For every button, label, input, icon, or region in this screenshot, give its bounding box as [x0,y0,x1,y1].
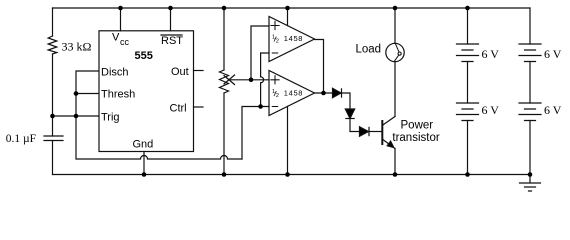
wire top rail [53,7,531,9]
node Vcc rail [118,6,123,11]
svg-text:1458: 1458 [284,34,303,43]
svg-text:Power: Power [401,120,434,132]
node opamp power rail [285,6,290,11]
wire opamp1 output [315,40,324,94]
node cap trig [50,114,55,119]
potentiometer resistor body [220,70,229,93]
node battery1 rail [465,6,470,11]
diode D2 [345,109,354,119]
op-amp U2b plus glyph [271,76,279,84]
wire diode1 to diode2 [342,93,351,109]
ground symbol [520,175,541,192]
node thresh vertical [74,91,79,96]
svg-text:transistor: transistor [392,132,439,144]
wire capacitor to bottom rail [52,141,54,175]
svg-text:RST: RST [161,35,183,47]
transistor Q1 base bar [381,121,383,144]
node gnd bottom [142,172,147,177]
wire diode3 to transistor base [369,131,382,133]
svg-text:Out: Out [171,66,189,78]
svg-text:Ctrl: Ctrl [170,103,187,115]
RST overline [161,34,182,36]
transistor Q1 emitter [383,140,395,149]
wire hop over wiper line [261,77,264,83]
wire resistor to capacitor [52,54,54,136]
battery B4 lower wire [529,121,531,175]
wire output node to diode 1 [315,92,333,94]
potentiometer upper wire [223,8,225,70]
svg-text:555: 555 [135,50,153,62]
battery B2 plates [457,103,479,121]
wire Vcc pin stub [120,8,122,31]
svg-text:Load: Load [356,44,382,56]
node battery1 bottom [465,172,470,177]
battery B4 plates [519,103,541,121]
wire Gnd pin [143,152,145,175]
wire inverting junction down [260,83,262,107]
resistor R 33k [48,36,57,54]
wire Out pin stub [194,70,204,72]
svg-text:6 V: 6 V [482,47,500,61]
wire Trig pin [53,115,99,117]
transistor Q1 emitter wire [394,149,396,175]
wire wiper to opamp1 noninverting [251,26,269,80]
op-amp U2b power wire [287,106,289,174]
battery B1 plates [457,44,479,62]
battery B1 to B2 wire [467,62,469,104]
transistor Q1 collector [383,117,395,126]
node opamp neg power bottom [285,172,290,177]
node trig vertical [74,114,79,119]
svg-text:1458: 1458 [284,88,303,97]
wire left branch upper [52,8,54,36]
wire Disch pin and feedback with hops [76,71,242,159]
lamp load filament [394,44,399,62]
op-amp U2a minus glyph [272,52,277,54]
node output junction [321,91,326,96]
wire wiper to opamp2 noninverting [251,79,269,81]
svg-text:Gnd: Gnd [133,139,154,151]
node pot bottom [222,172,227,177]
label 1/2 1458 opamp1 [272,34,303,45]
node emitter bottom [393,172,398,177]
lamp load upper wire [394,8,396,43]
wire RST pin stub [170,8,172,31]
potentiometer wiper arrow [229,79,251,81]
battery B3 upper wire [529,8,531,44]
wire opamp2 inverting [242,107,269,160]
svg-text:6 V: 6 V [482,103,500,117]
wire Ctrl pin stub [194,106,204,108]
node pot top rail [222,6,227,11]
svg-text:2: 2 [276,39,279,45]
svg-text:2: 2 [276,93,279,99]
op-amp U2b triangle [269,71,315,116]
svg-text:V: V [112,32,120,44]
svg-text:Thresh: Thresh [101,89,135,101]
svg-text:33 kΩ: 33 kΩ [62,40,92,54]
op-amp U2a power wire [287,8,289,26]
svg-text:Disch: Disch [101,67,129,79]
svg-text:Trig: Trig [101,112,120,124]
node RST rail [168,6,173,11]
label 1/2 1458 opamp2 [272,88,303,99]
diode D1 [333,88,394,147]
battery B1 upper wire [467,8,469,44]
op-amp U2a triangle [269,17,315,62]
svg-text:cc: cc [120,37,130,47]
IC U1 555 box [99,31,194,152]
svg-text:6 V: 6 V [544,47,562,61]
lamp to collector wire [394,62,396,117]
capacitor C 0.1uF [44,135,63,137]
battery B2 lower wire [467,121,469,175]
svg-text:0.1 µF: 0.1 µF [6,133,36,145]
transistor Q1 emitter arrowhead [387,141,394,147]
svg-text:6 V: 6 V [544,103,562,117]
node lamp rail [393,6,398,11]
wire Thresh pin [76,93,99,95]
wire bottom rail [53,174,531,176]
wire opamp1 inverting feedback [261,53,269,77]
node battery2 ground [528,172,533,177]
battery B3 to B4 wire [529,62,531,104]
diode D3 [360,127,369,136]
potentiometer lower wire [223,93,225,175]
wire diode2 to diode3 [350,119,360,132]
op-amp U2b minus glyph [272,106,277,108]
op-amp U2a plus glyph [271,21,279,29]
node wiper branch [249,78,254,83]
node inverting junction [258,104,263,109]
battery B3 plates [519,44,541,62]
lamp load circle [386,43,404,61]
